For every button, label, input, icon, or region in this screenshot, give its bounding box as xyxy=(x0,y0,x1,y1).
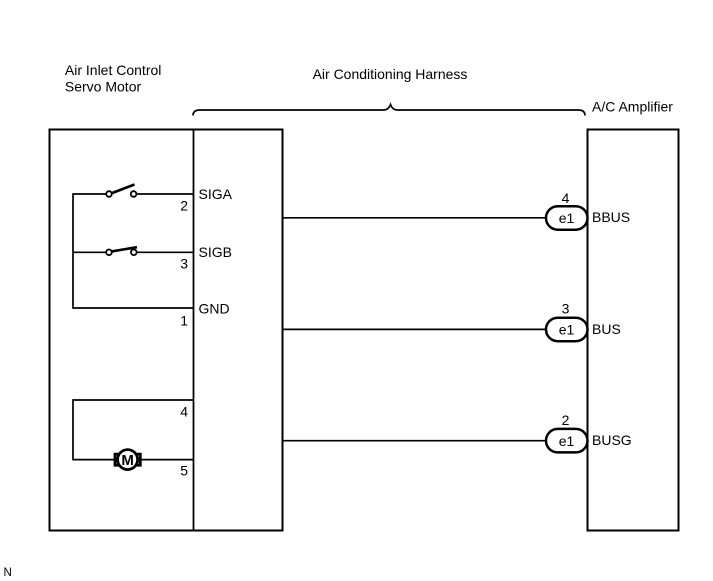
svg-text:e1: e1 xyxy=(559,322,575,338)
svg-text:5: 5 xyxy=(180,463,188,479)
motor M body circle xyxy=(118,450,138,470)
svg-text:GND: GND xyxy=(199,300,230,316)
label: Air Inlet Control Servo Motor xyxy=(65,62,161,94)
wire: motor loop vertical xyxy=(72,399,74,460)
svg-text:e1: e1 xyxy=(559,433,575,449)
motor M terminal bracket left xyxy=(115,454,121,465)
wire: harness to BUSG xyxy=(283,440,547,442)
svg-text:N: N xyxy=(4,567,12,579)
svg-text:Servo Motor: Servo Motor xyxy=(65,78,142,94)
connector e1 pin 3 xyxy=(546,318,588,342)
wire: motor left lead xyxy=(73,459,114,461)
brace: harness span xyxy=(193,105,585,116)
connector e1 pin 2 xyxy=(546,429,588,453)
component box: Air Inlet Control Servo Motor xyxy=(50,130,283,531)
switch SW-B arm xyxy=(112,247,137,251)
motor M terminal bracket right xyxy=(135,454,141,465)
wire: SIGB left segment xyxy=(73,251,106,253)
svg-text:e1: e1 xyxy=(559,210,575,226)
wire: motor right lead to pin 5 xyxy=(141,459,194,461)
wire: harness to BUS xyxy=(283,328,547,330)
wire: motor loop top to pin 4 xyxy=(73,399,194,401)
svg-text:BBUS: BBUS xyxy=(592,209,630,225)
svg-text:BUSG: BUSG xyxy=(592,432,632,448)
svg-text:4: 4 xyxy=(180,404,188,420)
svg-text:3: 3 xyxy=(562,301,570,317)
switch SW-A left contact xyxy=(106,191,112,197)
svg-text:2: 2 xyxy=(562,412,570,428)
component box: A/C Amplifier xyxy=(588,130,679,531)
svg-text:SIGA: SIGA xyxy=(199,186,233,202)
svg-text:BUS: BUS xyxy=(592,321,621,337)
switch SW-A right contact xyxy=(131,191,137,197)
svg-text:A/C Amplifier: A/C Amplifier xyxy=(592,99,673,115)
svg-text:SIGB: SIGB xyxy=(199,244,232,260)
wire: SIGB right segment to pin 3 xyxy=(137,251,194,253)
svg-text:3: 3 xyxy=(180,256,188,272)
switch SW-A arm xyxy=(112,185,135,194)
svg-text:Air Conditioning Harness: Air Conditioning Harness xyxy=(313,66,468,82)
wire: GND to pin 1 xyxy=(73,307,194,309)
connector e1 pin 4 xyxy=(546,206,588,230)
svg-text:Air Inlet Control: Air Inlet Control xyxy=(65,62,161,78)
svg-text:4: 4 xyxy=(562,190,570,206)
svg-text:M: M xyxy=(121,452,134,469)
svg-text:1: 1 xyxy=(180,312,188,328)
svg-text:2: 2 xyxy=(180,198,188,214)
wire: switch common vertical xyxy=(72,193,74,309)
connector divider line xyxy=(193,130,195,531)
switch SW-B right contact xyxy=(131,250,137,256)
switch SW-B left contact xyxy=(106,250,112,256)
wire: SIGA left segment xyxy=(73,193,106,195)
wire: harness to BBUS xyxy=(283,217,547,219)
wire: SIGA right segment to pin 2 xyxy=(136,193,193,195)
